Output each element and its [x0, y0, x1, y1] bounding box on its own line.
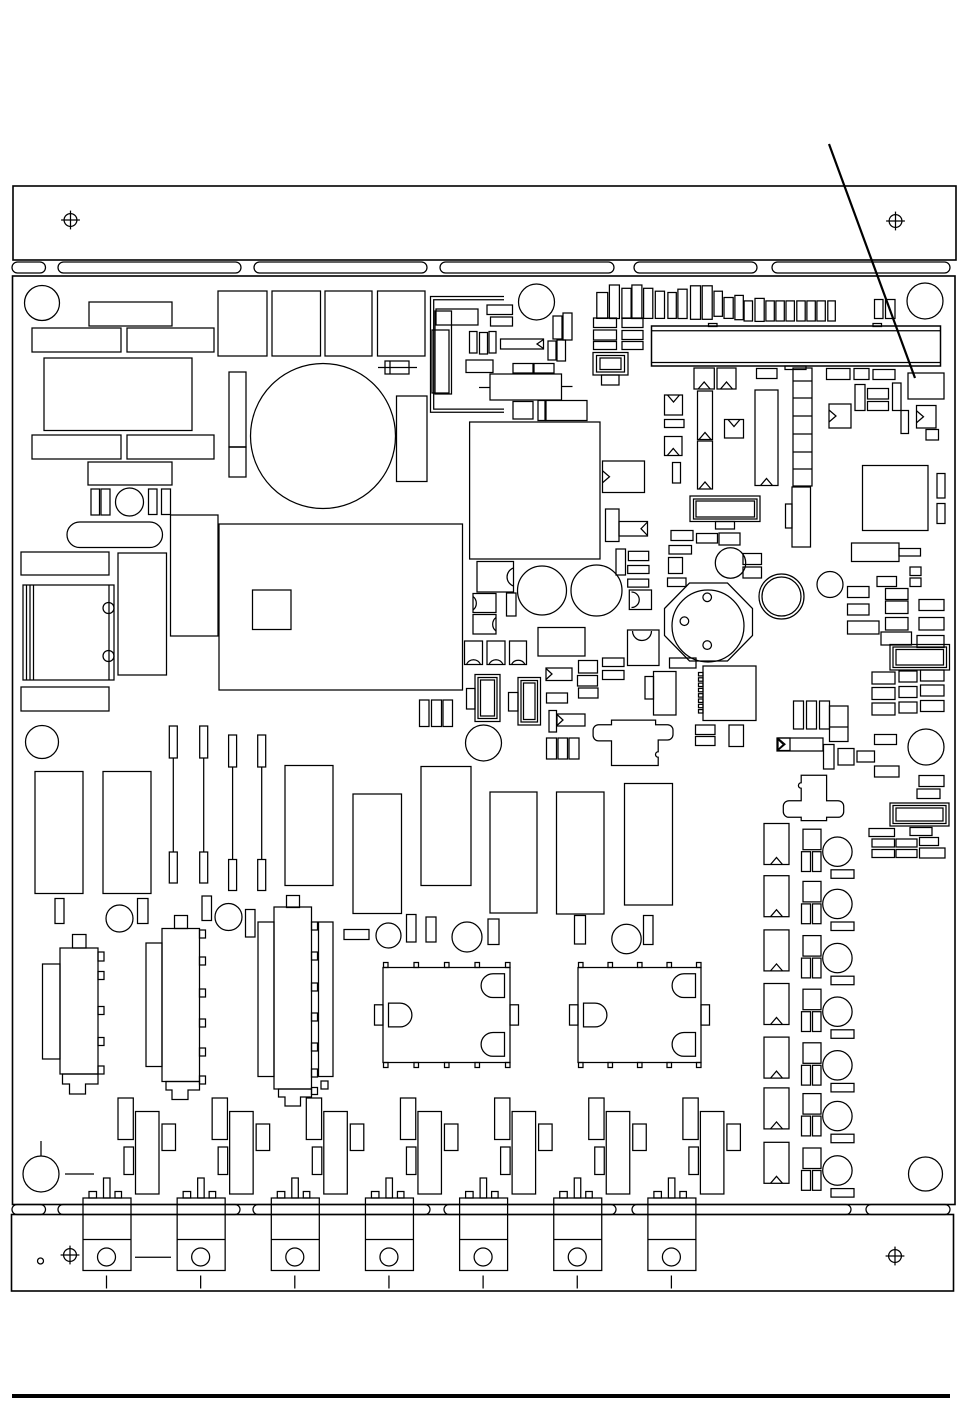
terminal block TB4: [365, 1178, 413, 1289]
bottom panel rail: [12, 1215, 954, 1292]
resistor R37: [910, 567, 921, 576]
resistor R35: [743, 554, 762, 565]
capacitor C71: [547, 738, 557, 759]
capacitor C86: [575, 916, 586, 945]
resistor R47: [919, 618, 944, 631]
diode D22: [764, 930, 789, 971]
terminal block TB7: [648, 1178, 696, 1289]
breakaway tab row bottom: [12, 1205, 950, 1215]
resistor R94: [628, 579, 649, 587]
resistor R13: [466, 360, 493, 373]
resistor R84: [103, 772, 151, 894]
resistor R51: [899, 671, 917, 682]
resistor R5: [127, 435, 214, 459]
capacitor C103: [813, 1171, 822, 1191]
resistor R79: [696, 725, 716, 735]
diode D25: [764, 1088, 789, 1129]
resistor R111: [831, 922, 854, 931]
capacitor C68: [578, 676, 598, 687]
relay RL1: [375, 963, 519, 1068]
IC U9: [699, 666, 757, 721]
capacitor C53: [886, 300, 896, 319]
mounting hole H1: [25, 286, 60, 321]
terminal block TB5: [460, 1178, 508, 1289]
capacitor C101: [813, 1065, 822, 1085]
resistor R116: [831, 1189, 854, 1198]
capacitor C21: [548, 341, 556, 360]
resistor R54: [899, 687, 917, 698]
capacitor C99: [813, 958, 822, 978]
relay K3: [852, 543, 921, 562]
capacitor C122: [595, 1147, 605, 1175]
resistor R93: [628, 566, 649, 574]
resistor R24: [827, 369, 851, 380]
capacitor CE12: [452, 922, 482, 952]
capacitor C41: [724, 298, 733, 319]
relay K2: [546, 401, 587, 421]
jumper W1: [169, 726, 177, 883]
diode D10: [473, 615, 496, 635]
capacitor CE4: [518, 566, 567, 615]
resistor R23: [757, 369, 778, 379]
capacitor C96: [802, 1171, 811, 1191]
resistor R22: [665, 420, 685, 428]
resonator X1: [698, 391, 713, 440]
fuse F1: [67, 522, 163, 548]
wire link TB1-TB2: [135, 1256, 171, 1258]
capacitor C36: [668, 293, 676, 319]
resistor R43: [886, 601, 909, 614]
terminal block TB2: [177, 1178, 225, 1289]
resistor R11: [491, 317, 513, 326]
resistor R14: [513, 364, 533, 374]
connector J9: [593, 720, 673, 765]
capacitor C123: [689, 1147, 699, 1175]
transistor Q5: [495, 1098, 510, 1140]
resistor R7: [21, 552, 109, 575]
main board outline: [13, 276, 956, 1205]
capacitor CE2 bulk electrolytic: [251, 364, 396, 509]
diode D1: [378, 361, 417, 374]
capacitor C117: [124, 1147, 134, 1175]
capacitor C88: [616, 549, 626, 575]
resistor R85: [285, 766, 333, 886]
terminal block TB1: [83, 1178, 131, 1289]
diode D13: [510, 641, 527, 665]
resistor R39: [848, 587, 870, 598]
resistor R105: [803, 1094, 821, 1115]
resistor R50: [872, 672, 895, 684]
capacitor CE10: [215, 904, 242, 931]
resistor R60: [838, 749, 854, 766]
resistor R46: [886, 618, 909, 631]
connector J3: [258, 896, 333, 1107]
display module DS3: [890, 803, 949, 826]
capacitor C13: [397, 396, 428, 482]
jumper W4: [258, 735, 266, 891]
capacitor C74: [432, 700, 442, 727]
capacitor C32: [622, 288, 631, 318]
capacitor C76: [420, 700, 430, 727]
capacitor C52: [875, 300, 884, 319]
transistor Q2: [212, 1098, 227, 1140]
resistor R68: [872, 839, 895, 847]
capacitor C94: [802, 1065, 811, 1085]
diode D2: [694, 368, 714, 389]
capacitor C62: [507, 593, 517, 616]
capacitor C113: [444, 1124, 458, 1151]
resistor R113: [831, 1030, 854, 1039]
resistor R88: [490, 792, 537, 913]
resistor R110: [831, 870, 854, 879]
capacitor C6: [171, 515, 219, 636]
resistor R69: [896, 839, 917, 847]
resistor R70: [920, 838, 939, 846]
capacitor C120: [406, 1147, 416, 1175]
crystal Y1: [593, 353, 628, 386]
mounting hole H2: [519, 284, 555, 320]
resistor R57: [899, 702, 917, 713]
diode D15: [629, 590, 651, 610]
capacitor CE1: [116, 488, 144, 516]
capacitor C58: [893, 383, 902, 411]
capacitor C83: [407, 915, 417, 943]
resistor R91: [344, 930, 369, 940]
capacitor CE24: [823, 1051, 852, 1080]
relay K1: [479, 374, 573, 400]
capacitor C47: [786, 301, 794, 321]
resistor R45: [848, 621, 880, 634]
diode D5: [665, 437, 683, 456]
diode D6: [725, 420, 744, 439]
capacitor C33: [632, 285, 642, 319]
resistor R17: [622, 318, 643, 328]
resistor R102: [803, 936, 821, 957]
resistor R36: [743, 567, 762, 578]
capacitor C92: [802, 958, 811, 978]
capacitor C63: [794, 701, 804, 729]
transistor Q6: [589, 1098, 604, 1140]
resonator X2: [698, 441, 713, 489]
resistor R19: [622, 331, 643, 340]
jumper W3: [229, 735, 237, 891]
transistor Q8: [136, 1112, 160, 1195]
screw hole top-right: [886, 212, 905, 231]
capacitor C110: [162, 1124, 176, 1151]
capacitor CE23: [823, 997, 852, 1026]
capacitor C23: [513, 402, 533, 420]
IC U7: [830, 706, 849, 742]
mounting hole H5: [466, 725, 502, 761]
transformer T2: [23, 585, 114, 680]
shield bracket: [431, 297, 505, 413]
capacitor C42: [735, 295, 743, 319]
capacitor C73: [569, 738, 579, 759]
capacitor CE5: [571, 565, 622, 616]
capacitor C40: [714, 291, 722, 316]
capacitor C80: [138, 899, 149, 924]
capacitor C11: [229, 372, 246, 447]
relay RL2: [570, 963, 710, 1068]
resistor R42: [848, 604, 870, 615]
capacitor C22: [557, 340, 566, 361]
connector J1: [43, 935, 105, 1095]
capacitor CE13: [612, 924, 641, 953]
capacitor C15: [432, 330, 449, 393]
connector J2: [146, 916, 206, 1100]
capacitor C119: [312, 1147, 322, 1175]
resistor R1: [89, 302, 172, 326]
capacitor C3: [149, 489, 158, 515]
resistor R76: [603, 671, 625, 680]
resistor R4: [32, 435, 121, 459]
capacitor C30: [597, 293, 608, 319]
resistor R16: [594, 318, 617, 328]
resistor R66: [869, 829, 895, 837]
resistor R92: [628, 551, 648, 560]
capacitor C118: [218, 1147, 228, 1175]
resistor R106: [803, 1148, 821, 1169]
resistor R75: [603, 658, 625, 667]
capacitor C55: [792, 487, 811, 547]
capacitor C64: [807, 701, 817, 729]
IC U5: [908, 373, 944, 399]
resistor R61: [857, 751, 875, 762]
resistor R100: [803, 829, 821, 850]
capacitor C93: [802, 1012, 811, 1032]
resistor R115: [831, 1134, 854, 1143]
resistor R73: [920, 848, 946, 858]
resistor R48: [881, 632, 912, 645]
diode bridge DB1: [477, 562, 514, 593]
capacitor C54: [673, 463, 681, 484]
resistor R44: [919, 600, 944, 611]
resistor R77: [547, 693, 568, 703]
capacitor C98: [813, 904, 822, 924]
resistor R40: [877, 577, 897, 587]
capacitor C61: [937, 504, 945, 524]
capacitor C12: [229, 447, 246, 477]
screw hole top-left: [61, 211, 80, 230]
capacitor C81: [202, 896, 212, 921]
resistor R12: [501, 339, 544, 349]
capacitor C84: [426, 917, 436, 942]
capacitor C49: [807, 301, 815, 321]
resistor R103: [803, 989, 821, 1010]
capacitor C91: [802, 904, 811, 924]
capacitor C43: [744, 301, 752, 321]
resistor R67: [910, 828, 932, 836]
resistor R49: [917, 636, 944, 648]
capacitor C9: [325, 291, 372, 356]
capacitor C34: [644, 288, 653, 318]
capacitor CE22: [823, 943, 852, 972]
resistor R112: [831, 976, 854, 985]
capacitor C10: [378, 291, 426, 356]
IC U2: [253, 590, 292, 630]
capacitor C18: [489, 332, 496, 354]
resistor R87: [421, 767, 471, 886]
resistor R41: [886, 589, 909, 600]
capacitor C16: [470, 332, 478, 354]
capacitor C102: [813, 1116, 822, 1136]
resistor R56: [872, 703, 895, 715]
capacitor C1: [91, 489, 100, 515]
resistor R8: [21, 687, 109, 711]
capacitor C7: [218, 291, 267, 356]
screw hole bottom-left: [61, 1246, 80, 1265]
capacitor C2: [101, 489, 110, 515]
resistor R25: [854, 369, 869, 380]
resistor R59: [777, 738, 823, 751]
capacitor C14: [435, 311, 452, 394]
capacitor CE8: [509, 678, 541, 726]
resistor R20: [594, 342, 617, 350]
resistor R90: [625, 784, 673, 906]
capacitor C17: [480, 333, 488, 355]
diode D14: [778, 738, 790, 751]
transformer T1: [44, 358, 192, 431]
capacitor C69: [579, 688, 599, 698]
capacitor C24: [538, 401, 545, 421]
resistor R64: [919, 776, 944, 787]
capacitor CE3: [715, 548, 745, 578]
resistor R104: [803, 1043, 821, 1064]
diode D20: [764, 824, 789, 865]
IC U6: [863, 466, 929, 531]
resistor R2: [32, 328, 121, 352]
capacitor C31: [609, 285, 619, 319]
capacitor C48: [797, 301, 805, 321]
diode D26: [764, 1142, 789, 1183]
IC U8: [538, 628, 585, 657]
capacitor C121: [501, 1147, 511, 1175]
capacitor C59: [901, 411, 909, 434]
capacitor C38: [691, 286, 701, 320]
resistor R30: [671, 531, 693, 541]
module U3: [470, 422, 600, 559]
IC U4: [755, 390, 778, 486]
resistor R58: [921, 701, 945, 712]
resistor R31: [697, 534, 718, 544]
top panel rail: [13, 186, 956, 260]
capacitor C112: [350, 1124, 364, 1151]
resistor R114: [831, 1083, 854, 1092]
capacitor CE6: [817, 572, 843, 598]
resistor R95: [668, 578, 687, 587]
transistor Q11: [418, 1112, 442, 1195]
inductor L1: [606, 509, 648, 542]
diode D9: [473, 594, 496, 613]
capacitor C39: [702, 286, 712, 320]
switch SW1: [783, 775, 843, 820]
capacitor C78: [645, 677, 654, 700]
resistor R62: [875, 735, 897, 745]
resistor R32: [719, 533, 740, 545]
resistor R78: [557, 714, 585, 726]
capacitor C82: [246, 910, 256, 938]
capacitor C4: [162, 489, 171, 515]
capacitor CE7: [467, 675, 501, 722]
resistor R3: [127, 328, 214, 352]
capacitor C90: [802, 852, 811, 872]
transistor Q14: [700, 1112, 724, 1195]
resistor R38: [910, 578, 921, 587]
capacitor C46: [776, 301, 784, 321]
resistor R27: [868, 389, 889, 400]
diode D7: [829, 404, 851, 428]
mounting hole H4: [26, 726, 59, 759]
diode D4: [665, 395, 683, 415]
capacitor C19: [553, 316, 562, 339]
capacitor CE21: [823, 889, 852, 918]
transistor Q1: [118, 1098, 133, 1140]
resistor R15: [534, 364, 554, 374]
transistor Q9: [230, 1112, 254, 1195]
resistor R81: [670, 658, 697, 668]
resistor R74: [546, 668, 572, 681]
capacitor CE11: [376, 923, 401, 948]
capacitor C5: [118, 553, 167, 675]
resistor R52: [921, 670, 945, 681]
resistor R6: [88, 462, 172, 485]
resistor R53: [872, 688, 895, 700]
resistor R18: [594, 330, 617, 340]
resistor network RN1: [793, 368, 812, 486]
terminal block TB6: [554, 1178, 602, 1289]
transistor Q4: [400, 1098, 415, 1140]
capacitor C45: [766, 301, 774, 321]
mounting hole H8: [909, 1157, 943, 1191]
capacitor C114: [539, 1124, 553, 1151]
capacitor C65: [820, 701, 830, 729]
resistor R65: [917, 789, 940, 799]
resistor R29: [926, 430, 939, 441]
capacitor C115: [633, 1124, 647, 1151]
capacitor C85: [488, 919, 499, 945]
IC U10: [654, 672, 677, 716]
capacitor C79: [55, 899, 64, 924]
resistor R72: [896, 850, 917, 858]
resistor R80: [696, 737, 716, 746]
diode D24: [764, 1037, 789, 1078]
screw hole bottom-right: [886, 1247, 905, 1266]
transistor Q7: [683, 1098, 698, 1140]
resistor R34: [669, 558, 683, 574]
capacitor C111: [256, 1124, 270, 1151]
capacitor C66: [824, 745, 835, 770]
resistor R63: [875, 766, 900, 777]
diode D8: [917, 406, 937, 429]
transistor Q10: [324, 1112, 348, 1195]
resistor R83: [35, 772, 83, 894]
capacitor C50: [817, 301, 825, 321]
mounting hole H3: [907, 283, 943, 319]
regulator VR1: [665, 583, 753, 662]
leader line: [829, 144, 915, 378]
resistor R28: [868, 402, 889, 411]
resistor R21: [622, 342, 643, 350]
capacitor C70: [549, 711, 557, 733]
capacitor C100: [813, 1012, 822, 1032]
diode D23: [764, 984, 789, 1025]
resistor R9: [436, 309, 478, 325]
module U1 heatsink plate: [219, 524, 463, 690]
diode D21: [764, 876, 789, 917]
capacitor C116: [727, 1124, 741, 1151]
transistor Q3: [306, 1098, 321, 1140]
display module DS2: [890, 645, 950, 671]
